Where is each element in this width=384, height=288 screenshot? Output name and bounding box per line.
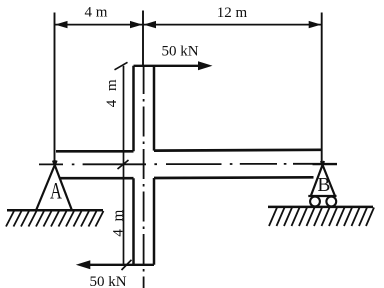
extension line at column axis [142, 11, 144, 67]
svg-text:50 kN: 50 kN [89, 274, 126, 288]
svg-text:B: B [317, 175, 330, 196]
svg-text:A: A [50, 179, 62, 204]
beam bottom edge [60, 176, 314, 180]
ground hatching at A [6, 211, 104, 227]
roller support B triangle [308, 161, 336, 196]
ground line at B [268, 206, 373, 209]
force arrow 50 kN bottom [76, 260, 154, 269]
column centerline [143, 66, 145, 288]
svg-text:4 m: 4 m [84, 4, 107, 20]
extension line at support A [54, 13, 56, 166]
pin support A [36, 161, 72, 211]
svg-text:12 m: 12 m [217, 5, 248, 21]
dimension line 4 m with arrows [55, 21, 143, 28]
beam top edge [56, 150, 322, 152]
svg-text:50 kN: 50 kN [161, 43, 198, 59]
support B top plate line [313, 163, 338, 165]
extension line at support B [321, 13, 323, 166]
column right edge [153, 66, 156, 265]
force arrow 50 kN top [134, 61, 213, 70]
svg-text:4 m: 4 m [104, 77, 120, 107]
column left edge [132, 66, 135, 265]
vertical dimension line with ticks [115, 62, 132, 270]
dimension line 12 m with arrows [143, 21, 322, 28]
beam centerline [39, 163, 337, 166]
ground hatching at B [269, 208, 374, 227]
ground line at A [7, 209, 103, 212]
roller wheels B [310, 197, 336, 207]
svg-text:4 m: 4 m [111, 208, 127, 237]
